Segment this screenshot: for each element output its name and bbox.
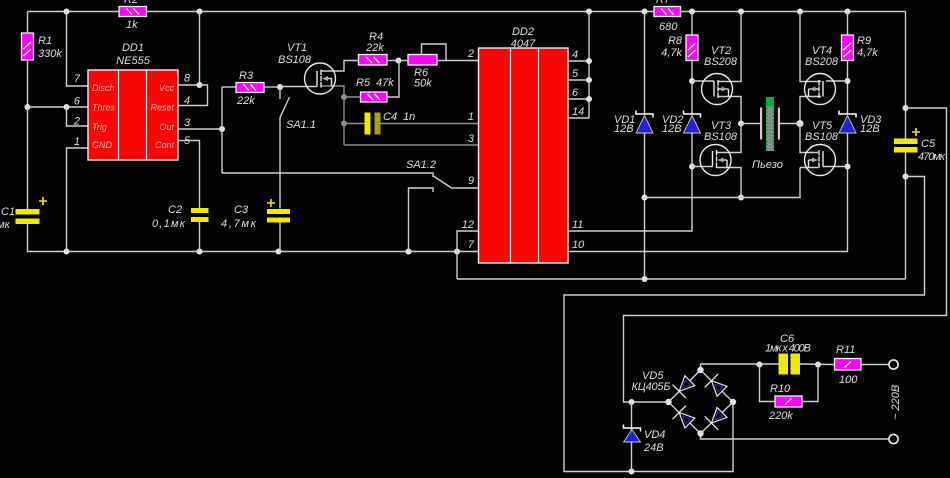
node gnd SA1.2 junction (406, 249, 412, 255)
node gnd C3 junction (276, 249, 282, 255)
wire R6 wiper arm (422, 44, 447, 61)
wire R5 right lead up (387, 61, 399, 98)
wire C5 branch top (905, 12, 907, 139)
label C1 plus (39, 197, 47, 205)
wire DD2 pin 5 (568, 79, 589, 81)
wire R5 left lead (344, 96, 361, 98)
svg-text:1n: 1n (403, 111, 415, 123)
node pin4 junction (586, 58, 592, 64)
svg-text:11: 11 (572, 219, 583, 231)
svg-text:DD2: DD2 (512, 26, 534, 38)
wire C1 branch (27, 107, 29, 209)
svg-text:24В: 24В (643, 442, 664, 454)
wire C4 to DD2 pin 1 (381, 123, 479, 125)
svg-text:C2: C2 (168, 204, 182, 216)
resistor R9 (842, 35, 854, 61)
transistor VT3 (700, 145, 731, 176)
node VD4 bottom junction (629, 469, 635, 475)
svg-text:R8: R8 (668, 35, 683, 47)
wire R1 top lead (27, 12, 29, 34)
svg-text:12В: 12В (614, 123, 634, 135)
wire DD2 pin 12 (457, 231, 479, 252)
svg-text:R11: R11 (836, 344, 855, 356)
svg-text:КЦ405Б: КЦ405Б (632, 381, 671, 393)
wire pin3 vertical (221, 87, 223, 173)
wire R10 left lead (760, 365, 776, 402)
svg-text:BS108: BS108 (704, 131, 738, 143)
svg-text:10: 10 (572, 239, 585, 251)
resistor R8 (686, 35, 698, 61)
svg-text:6: 6 (572, 87, 579, 99)
node pin2 tie junction (64, 104, 70, 110)
svg-text:7: 7 (74, 73, 81, 85)
diode VD3 zener (839, 111, 856, 134)
node piezo right junction (797, 120, 804, 127)
wire C5 bottom to gnd corner (905, 152, 907, 279)
wire DD2 pin 6 (568, 98, 589, 100)
svg-text:0,1мк: 0,1мк (152, 218, 186, 230)
wire source ground link (645, 168, 801, 198)
svg-text:Пьезо: Пьезо (752, 159, 783, 171)
wire ground drop to bottom net (456, 252, 458, 280)
wire VT5 gate lead (823, 166, 848, 168)
wire R8 to VT2 gate and VD2 (691, 61, 693, 115)
wire VT2 gate lead (692, 80, 714, 82)
capacitor C2 (191, 208, 209, 222)
wire DD1 pin 4 (178, 85, 208, 106)
node bridge bottom (697, 430, 703, 436)
wire C3 to ground (279, 222, 281, 252)
wire DD1 pin 2 (67, 107, 89, 126)
node VT3 gate junction (689, 164, 695, 170)
svg-text:R7: R7 (656, 0, 671, 6)
svg-text:R10: R10 (770, 383, 791, 395)
transistor VT1 (305, 63, 336, 94)
trimmer R6 (408, 55, 437, 66)
op-amp DD1 body (88, 70, 178, 160)
node rail R9 junction (845, 9, 851, 15)
capacitor C5 (894, 139, 918, 153)
svg-text:R5: R5 (356, 77, 371, 89)
svg-text:BS108: BS108 (278, 54, 312, 66)
bridge rectifier VD5 diode top-left (672, 374, 696, 398)
svg-text:NE555: NE555 (116, 55, 151, 67)
switch SA1.1 (280, 87, 290, 209)
wire VT5 source down (800, 167, 818, 169)
wire VT3 gate lead (692, 166, 713, 168)
wire R9 to VT4 gate and VD3 (847, 61, 849, 115)
node VT3 source net junction (642, 195, 648, 201)
op-amp DD2 body (479, 48, 569, 263)
node gate SA1.1 junction (277, 84, 283, 90)
diode VD2 zener (684, 111, 701, 134)
wire VT4 drain (800, 12, 821, 82)
svg-text:1k: 1k (126, 19, 138, 31)
wire R6 to DD2 pin 2 (437, 60, 479, 62)
node pin8-pin4 junction (197, 82, 203, 88)
svg-text:1мк x 400В: 1мк x 400В (765, 343, 811, 355)
node R1-C1-pin6 junction (25, 104, 31, 110)
wire R4 to node (387, 60, 399, 62)
svg-text:Out: Out (159, 122, 174, 132)
node link A VD1 junction (642, 276, 648, 282)
svg-text:VT1: VT1 (287, 42, 307, 54)
svg-text:4,7мк: 4,7мк (221, 218, 257, 230)
node rail VT4 drain junction (797, 9, 803, 15)
svg-text:4: 4 (184, 95, 190, 107)
node gnd pin7-12 junction (454, 249, 460, 255)
wire plus feed to AC section (624, 108, 947, 402)
diode VD1 zener (636, 111, 653, 134)
svg-text:SA1.1: SA1.1 (286, 119, 316, 131)
wire DD1 pin 5 to C2 (178, 141, 200, 209)
wire C6 to R11 node (800, 363, 835, 366)
svg-text:VD4: VD4 (644, 429, 665, 441)
svg-text:R3: R3 (239, 70, 254, 82)
svg-text:R9: R9 (857, 35, 871, 47)
svg-text:Thres: Thres (92, 103, 116, 113)
svg-text:Reset: Reset (150, 103, 174, 113)
switch SA1.2 blade (434, 176, 452, 188)
wire DD1 pin 7 to rail (67, 12, 89, 87)
svg-text:470мк: 470мк (918, 151, 946, 163)
diode VD4 zener (624, 425, 641, 443)
wire DD1 pin 6 (28, 106, 89, 108)
resistor R11 (835, 359, 862, 371)
svg-text:SA1.2: SA1.2 (406, 159, 436, 171)
svg-text:22k: 22k (365, 42, 384, 54)
node pin6 junction (586, 96, 592, 102)
svg-text:3: 3 (184, 117, 191, 129)
svg-text:47k: 47k (376, 77, 394, 89)
wire DD2 supply vertical (588, 12, 590, 119)
wire top +V rail left segment (28, 11, 120, 13)
svg-text:BS108: BS108 (805, 131, 839, 143)
wire piezo left lead (741, 123, 760, 125)
bridge rectifier VD5 diode top-right (705, 374, 729, 398)
wire gate node to VT1 (280, 86, 317, 88)
wire top +V rail right segment (681, 11, 906, 13)
svg-text:Vcc: Vcc (159, 83, 175, 93)
svg-text:3: 3 (468, 133, 475, 145)
wire DD2 pin 11 to VT3 gate (568, 167, 692, 232)
node C5 top junction (903, 105, 909, 111)
capacitor C6 (779, 354, 801, 375)
wire R1 bottom lead (27, 60, 29, 107)
svg-text:DD1: DD1 (122, 42, 144, 54)
svg-text:12В: 12В (860, 123, 880, 135)
wire SA1.2 to DD2 pin 9 (452, 187, 479, 189)
wire to C4 (344, 123, 365, 125)
node rail pin8 junction (197, 9, 203, 15)
svg-text:4: 4 (572, 49, 578, 61)
svg-text:Disch: Disch (92, 83, 115, 93)
svg-text:R2: R2 (124, 0, 138, 6)
terminal upper ~220V (889, 360, 898, 369)
wire top +V rail middle segment (147, 11, 655, 13)
resistor R3 (236, 83, 264, 93)
wire VT2 source to piezo node (718, 97, 741, 124)
wire VT1 source bend (321, 86, 344, 97)
wire VD1 anode down (644, 133, 646, 279)
node VT5 gate junction (845, 164, 851, 170)
label C5 plus (912, 128, 920, 136)
wire DD1 pin 8 (178, 12, 200, 86)
svg-text:12: 12 (462, 219, 474, 231)
svg-text:7: 7 (468, 239, 475, 251)
svg-text:BS208: BS208 (805, 56, 839, 68)
wire VD1 branch upper (644, 12, 646, 115)
transistor VT4 (805, 74, 836, 105)
node bridge right (730, 399, 736, 405)
wire C2 bottom lead (199, 222, 201, 252)
svg-text:4,7k: 4,7k (661, 47, 682, 59)
piezo element (760, 97, 780, 151)
resistor R1 (22, 33, 34, 60)
node rail DD2 supply junction (586, 9, 592, 15)
wire VT1 drain to R4 (321, 61, 359, 72)
bridge rectifier VD5 diode bottom-left (672, 406, 696, 430)
node pin5 junction (586, 77, 592, 83)
node VT2 gate junction (689, 78, 695, 84)
label C3 plus (267, 199, 275, 207)
svg-text:50k: 50k (414, 78, 432, 90)
wire source to DD2 pin 3 (344, 144, 479, 146)
node bridge left (665, 399, 671, 405)
wire node to R6 (399, 60, 409, 62)
node rail pin7 junction (64, 9, 70, 15)
wire R9 top lead (847, 12, 849, 36)
node VT4 gate junction (845, 78, 851, 84)
wire DD1 pin 3 output (178, 128, 222, 130)
svg-text:680: 680 (659, 21, 678, 33)
wire VT5 drain (800, 124, 818, 153)
svg-text:C4: C4 (383, 111, 397, 123)
node piezo left junction (738, 121, 744, 127)
wire VD3 anode down (847, 133, 849, 167)
svg-text:BS208: BS208 (704, 56, 738, 68)
node rail VD1 junction (642, 9, 648, 15)
svg-text:1мк: 1мк (0, 219, 11, 231)
wire DD2 pin 14 (568, 117, 589, 119)
svg-text:14: 14 (572, 106, 584, 118)
capacitor C4 (365, 113, 381, 135)
svg-text:Trig: Trig (92, 122, 107, 132)
svg-text:Cont: Cont (155, 140, 175, 150)
wire minus feed to AC section (564, 177, 925, 472)
node R4-R5-R6 junction (396, 58, 402, 64)
wire VT4 source to piezo node (800, 97, 821, 124)
wire VT3 source down (717, 168, 742, 198)
wire VT3 drain (717, 124, 742, 153)
svg-text:2: 2 (467, 48, 474, 60)
wire VT4 gate lead (826, 80, 848, 82)
svg-text:6: 6 (74, 96, 81, 108)
svg-text:220k: 220k (768, 410, 793, 422)
node bridge top (697, 367, 703, 373)
svg-text:5: 5 (184, 135, 191, 147)
transistor VT5 (805, 145, 836, 176)
resistor R7 (654, 7, 681, 17)
wire DD1 out to SA1.2 upper contact (222, 173, 433, 177)
svg-text:9: 9 (468, 175, 474, 187)
resistor R5 (361, 92, 388, 102)
wire source vertical (343, 97, 345, 145)
svg-text:C5: C5 (921, 138, 936, 150)
capacitor C1 (16, 209, 40, 224)
svg-text:4,7k: 4,7k (857, 47, 878, 59)
svg-text:22k: 22k (236, 95, 255, 107)
node VT3 source junction2 (738, 195, 744, 201)
svg-text:100: 100 (839, 374, 858, 386)
wire pin3 to R3 (222, 86, 236, 88)
wire SA1.2 lower contact from ground (409, 188, 434, 252)
svg-text:330k: 330k (38, 48, 62, 60)
node pin3 junction (219, 126, 225, 132)
wire R10 right lead (802, 365, 818, 402)
wire gnd link A (457, 278, 906, 280)
node VD4 top junction (629, 399, 635, 405)
node rail VT2 drain junction (738, 9, 744, 15)
node R10 right junction (815, 362, 821, 368)
wire piezo right lead (780, 123, 800, 125)
svg-text:C3: C3 (234, 204, 249, 216)
wire bridge top to C6 row (701, 364, 779, 370)
wire VT2 drain (718, 12, 741, 82)
wire R11 to terminal (861, 364, 889, 366)
svg-text:~ 220В: ~ 220В (890, 385, 902, 420)
wire VD2 anode down (691, 133, 693, 167)
node VT1 source junction (341, 94, 347, 100)
wire bridge bottom to lower terminal (701, 434, 890, 440)
wire DD2 pin 10 to VT5 gate (568, 167, 848, 252)
svg-text:12В: 12В (662, 123, 682, 135)
resistor R10 (775, 396, 802, 407)
wire R8 top lead (691, 12, 693, 36)
svg-text:R1: R1 (38, 35, 52, 47)
node rail R8 junction (689, 9, 695, 15)
node C5 bottom junction (903, 174, 909, 180)
svg-text:2: 2 (73, 116, 80, 128)
capacitor C3 (267, 209, 290, 223)
bridge edges VD5 (669, 370, 734, 434)
resistor R2 (119, 7, 147, 17)
svg-text:4047: 4047 (511, 38, 536, 50)
wire VD4 vertical (631, 402, 633, 472)
wire DD2 pin 4 (568, 60, 589, 62)
wire C1 to ground rail (28, 224, 479, 252)
node C4 junction (341, 121, 347, 127)
wire R3 to gate node (264, 86, 280, 88)
svg-text:C1: C1 (1, 206, 15, 218)
node R10 left junction (757, 362, 763, 368)
bridge rectifier VD5 diode bottom-right (705, 406, 729, 430)
svg-text:1: 1 (74, 136, 80, 148)
resistor R4 (359, 55, 388, 66)
svg-text:8: 8 (184, 73, 191, 85)
node gnd C2 junction (197, 249, 203, 255)
transistor VT2 (702, 74, 733, 105)
terminal lower ~220V (889, 434, 898, 443)
svg-text:GND: GND (92, 140, 113, 150)
svg-text:1: 1 (468, 111, 474, 123)
node gnd DD1 pin1 junction (64, 249, 70, 255)
wire DD1 pin 1 to ground (67, 148, 89, 252)
svg-text:5: 5 (572, 68, 579, 80)
